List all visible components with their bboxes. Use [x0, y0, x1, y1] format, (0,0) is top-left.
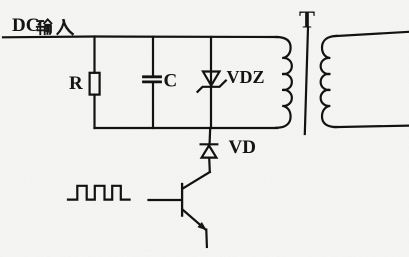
label VD [229, 137, 256, 158]
transistor Q1 base lead [149, 199, 182, 201]
wire below resistor [93, 95, 95, 128]
svg-text:DC: DC [12, 15, 39, 36]
wire bottom rail [95, 127, 278, 129]
transformer secondary winding [321, 36, 337, 127]
wire capacitor branch top [152, 37, 154, 75]
transistor Q1 base bar [181, 184, 183, 216]
svg-text:VDZ: VDZ [227, 67, 265, 87]
label VDZ [227, 67, 265, 87]
glyph 输 [37, 19, 52, 34]
transistor Q1 emitter arrowhead [198, 223, 206, 230]
wire capacitor branch bottom [152, 84, 154, 128]
glyph 入 [58, 20, 73, 34]
diode VD [201, 144, 218, 157]
svg-text:T: T [299, 8, 315, 34]
wire secondary top lead [335, 32, 409, 36]
wire secondary bottom lead [335, 126, 409, 128]
label C [164, 71, 178, 92]
wire diode to collector [208, 158, 211, 172]
svg-text:C: C [164, 71, 178, 92]
svg-text:VD: VD [229, 137, 256, 158]
wire top rail [3, 35, 277, 38]
square wave source [68, 186, 130, 200]
label DC输入 [12, 15, 39, 36]
transistor Q1 emitter lead [183, 210, 206, 230]
wire emitter tail [205, 230, 208, 248]
resistor R [90, 73, 100, 95]
label T [299, 8, 315, 34]
capacitor C [144, 77, 161, 82]
wire left vertical branch [93, 37, 95, 73]
svg-text:R: R [69, 73, 83, 94]
wire zener branch [210, 37, 212, 128]
transistor Q1 collector lead [183, 172, 210, 189]
zener diode VDZ [198, 72, 226, 92]
transformer core [305, 28, 308, 135]
transformer primary winding [276, 37, 292, 128]
label R [69, 73, 83, 94]
wire rail to diode VD [209, 128, 212, 143]
